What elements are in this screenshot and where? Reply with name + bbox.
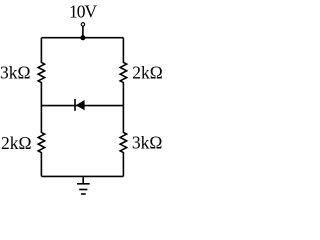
svg-text:2kΩ: 2kΩ xyxy=(1,133,32,153)
svg-text:10V: 10V xyxy=(69,2,98,22)
svg-text:3kΩ: 3kΩ xyxy=(132,133,163,153)
svg-text:2kΩ: 2kΩ xyxy=(132,63,163,83)
svg-text:3kΩ: 3kΩ xyxy=(0,63,31,83)
